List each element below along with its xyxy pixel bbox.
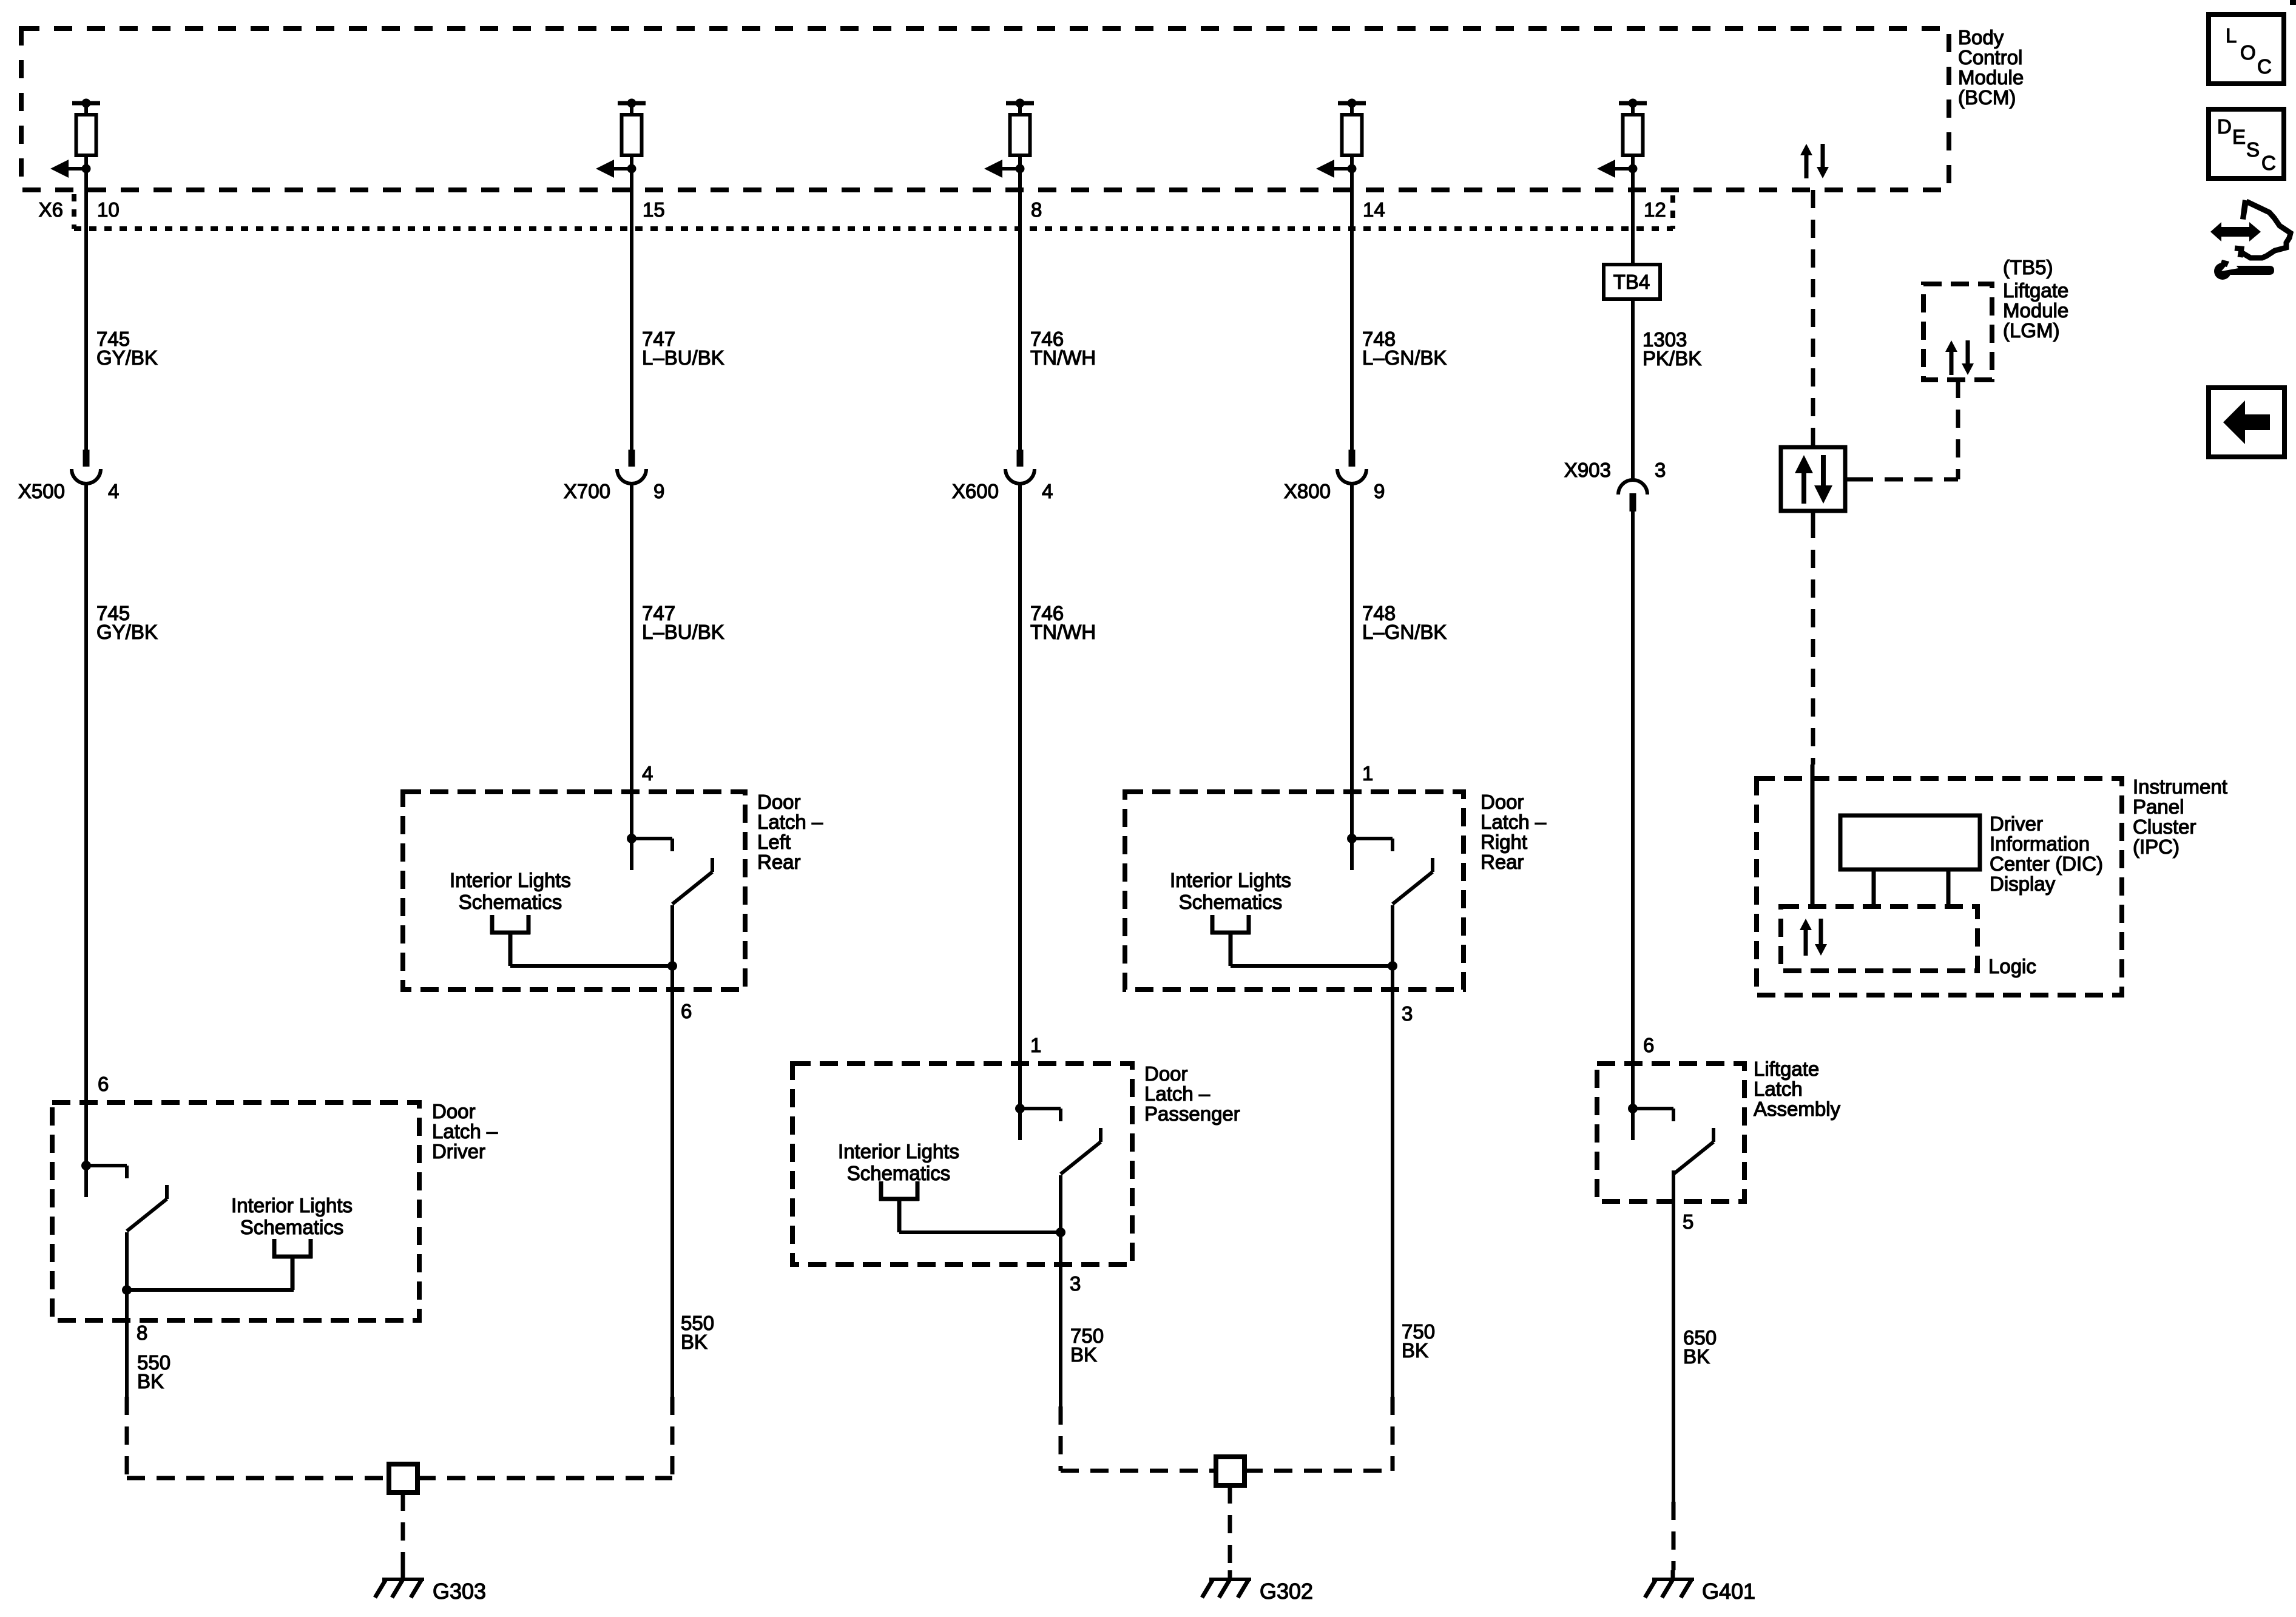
svg-text:D: D	[2217, 115, 2232, 138]
svg-text:G302: G302	[1260, 1579, 1313, 1604]
svg-text:S: S	[2246, 138, 2260, 161]
svg-text:8: 8	[1031, 198, 1042, 221]
svg-text:Instrument: Instrument	[2133, 775, 2227, 798]
svg-text:Interior Lights: Interior Lights	[450, 869, 571, 891]
svg-text:Liftgate: Liftgate	[2003, 279, 2068, 302]
svg-text:O: O	[2240, 41, 2256, 64]
svg-text:Latch –: Latch –	[1144, 1082, 1210, 1105]
svg-text:6: 6	[1643, 1034, 1654, 1056]
svg-text:G303: G303	[433, 1579, 486, 1604]
svg-text:Door: Door	[1144, 1062, 1188, 1085]
svg-text:Rear: Rear	[1481, 851, 1524, 873]
svg-text:X903: X903	[1564, 459, 1611, 481]
svg-text:4: 4	[642, 762, 653, 785]
svg-text:Door: Door	[757, 791, 801, 813]
svg-text:Passenger: Passenger	[1144, 1102, 1240, 1125]
svg-text:TN/WH: TN/WH	[1030, 621, 1096, 643]
svg-text:GY/BK: GY/BK	[96, 621, 158, 643]
svg-text:(LGM): (LGM)	[2003, 319, 2060, 342]
svg-text:3: 3	[1655, 459, 1666, 481]
svg-text:BK: BK	[681, 1331, 707, 1353]
svg-text:X500: X500	[18, 480, 65, 502]
svg-text:Driver: Driver	[432, 1140, 485, 1163]
svg-text:(BCM): (BCM)	[1958, 86, 2016, 109]
svg-text:Liftgate: Liftgate	[1754, 1058, 1819, 1080]
svg-text:Cluster: Cluster	[2133, 815, 2196, 838]
svg-text:BK: BK	[137, 1370, 164, 1393]
svg-text:Panel: Panel	[2133, 795, 2184, 818]
svg-text:G401: G401	[1702, 1579, 1755, 1604]
svg-text:4: 4	[1042, 480, 1053, 502]
svg-text:(IPC): (IPC)	[2133, 836, 2180, 858]
svg-text:8: 8	[137, 1322, 147, 1344]
svg-text:Assembly: Assembly	[1754, 1098, 1841, 1120]
svg-text:C: C	[2261, 152, 2276, 174]
svg-text:X6: X6	[39, 198, 63, 221]
svg-text:GY/BK: GY/BK	[96, 346, 158, 369]
svg-text:9: 9	[1374, 480, 1385, 502]
svg-text:15: 15	[643, 198, 665, 221]
svg-text:9: 9	[653, 480, 664, 502]
svg-text:Display: Display	[1990, 873, 2056, 895]
svg-text:Schematics: Schematics	[847, 1162, 951, 1184]
svg-text:Interior Lights: Interior Lights	[838, 1140, 959, 1163]
svg-text:Latch –: Latch –	[432, 1120, 498, 1143]
svg-text:Logic: Logic	[1988, 955, 2036, 977]
svg-text:3: 3	[1402, 1002, 1413, 1025]
svg-text:Latch: Latch	[1754, 1078, 1803, 1100]
svg-text:Latch –: Latch –	[757, 811, 823, 833]
svg-text:BK: BK	[1683, 1345, 1710, 1368]
svg-text:14: 14	[1363, 198, 1385, 221]
svg-text:L–GN/BK: L–GN/BK	[1362, 346, 1447, 369]
svg-text:Schematics: Schematics	[459, 891, 562, 913]
svg-text:10: 10	[97, 198, 120, 221]
svg-text:X800: X800	[1284, 480, 1331, 502]
svg-text:E: E	[2232, 126, 2246, 148]
svg-text:Control: Control	[1958, 46, 2022, 69]
svg-text:L: L	[2226, 24, 2237, 47]
svg-text:Driver: Driver	[1990, 812, 2043, 835]
svg-text:L–BU/BK: L–BU/BK	[642, 621, 724, 643]
svg-text:TN/WH: TN/WH	[1030, 346, 1096, 369]
svg-text:X600: X600	[952, 480, 999, 502]
svg-text:(TB5): (TB5)	[2003, 256, 2053, 279]
svg-text:Interior Lights: Interior Lights	[1170, 869, 1291, 891]
svg-text:3: 3	[1070, 1272, 1081, 1295]
svg-text:L–GN/BK: L–GN/BK	[1362, 621, 1447, 643]
svg-text:L–BU/BK: L–BU/BK	[642, 346, 724, 369]
svg-text:TB4: TB4	[1613, 271, 1650, 293]
svg-text:6: 6	[681, 1000, 692, 1022]
svg-text:Center (DIC): Center (DIC)	[1990, 852, 2103, 875]
svg-text:BK: BK	[1402, 1339, 1428, 1362]
svg-text:5: 5	[1683, 1210, 1693, 1233]
svg-text:Door: Door	[432, 1100, 476, 1122]
svg-text:PK/BK: PK/BK	[1643, 347, 1701, 370]
svg-text:1: 1	[1030, 1034, 1041, 1056]
svg-text:Rear: Rear	[757, 851, 801, 873]
svg-text:Module: Module	[2003, 299, 2068, 322]
svg-text:Schematics: Schematics	[240, 1216, 344, 1238]
svg-text:Door: Door	[1481, 791, 1524, 813]
svg-text:Latch –: Latch –	[1481, 811, 1547, 833]
svg-text:Schematics: Schematics	[1179, 891, 1283, 913]
svg-text:12: 12	[1644, 198, 1666, 221]
svg-text:4: 4	[108, 480, 119, 502]
svg-text:6: 6	[98, 1073, 109, 1095]
svg-text:C: C	[2257, 55, 2272, 78]
svg-text:Interior Lights: Interior Lights	[231, 1194, 353, 1217]
svg-text:1: 1	[1362, 762, 1373, 785]
svg-text:Right: Right	[1481, 831, 1527, 853]
svg-text:Left: Left	[757, 831, 791, 853]
svg-text:Module: Module	[1958, 66, 2024, 89]
svg-text:Information: Information	[1990, 832, 2090, 855]
svg-text:Body: Body	[1958, 26, 2004, 49]
svg-text:BK: BK	[1070, 1343, 1097, 1366]
svg-text:X700: X700	[564, 480, 610, 502]
